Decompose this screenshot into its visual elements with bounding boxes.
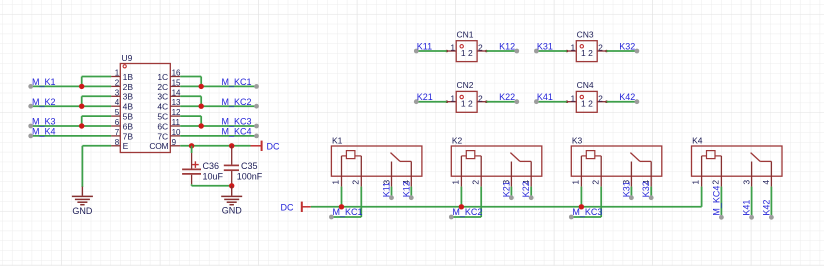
svg-text:K4: K4 [692, 136, 703, 146]
wire net K11 contact [391, 187, 393, 198]
svg-text:K41: K41 [742, 200, 752, 216]
port dot M_KC4 at K4 [719, 215, 724, 220]
wire net M_KC1 [180, 77, 256, 87]
ground GND left [72, 187, 93, 216]
svg-text:10uF: 10uF [203, 171, 224, 181]
svg-text:2C: 2C [157, 82, 168, 92]
svg-text:M_K1: M_K1 [32, 77, 56, 87]
junction C36 top [189, 143, 194, 148]
connector CN4 [566, 91, 608, 112]
svg-text:2: 2 [711, 180, 721, 185]
capacitor C35 [224, 146, 239, 186]
svg-text:K21: K21 [417, 92, 433, 102]
svg-text:C36: C36 [203, 161, 220, 171]
svg-text:14: 14 [172, 88, 181, 97]
junction on net M_K3 [79, 123, 84, 128]
wire net K21 contact [510, 187, 512, 198]
svg-text:2B: 2B [123, 82, 134, 92]
svg-text:K1: K1 [332, 136, 343, 146]
junction DC at K3 [579, 204, 584, 209]
wire COM to DC [180, 145, 250, 147]
svg-text:CN2: CN2 [457, 80, 474, 90]
port dot M_K4 [28, 134, 33, 139]
port dot K22 [529, 195, 534, 200]
svg-text:GND: GND [72, 206, 93, 216]
wire net M_KC3 at K3 [571, 187, 601, 217]
svg-text:K21: K21 [501, 181, 511, 197]
port dot K11 [389, 195, 394, 200]
svg-text:11: 11 [172, 118, 181, 127]
wire net K42 [607, 101, 637, 103]
svg-text:K3: K3 [572, 136, 583, 146]
port dot M_KC3 at K3 [569, 215, 574, 220]
port dot K12 [409, 195, 414, 200]
svg-text:M_KC3: M_KC3 [572, 207, 602, 217]
relay K2 body [451, 146, 542, 187]
junction on net M_KC3 [199, 123, 204, 128]
svg-text:3: 3 [741, 180, 751, 185]
svg-text:2: 2 [590, 180, 600, 185]
wire net K12 contact [410, 187, 412, 198]
svg-text:15: 15 [172, 78, 181, 87]
port dot M_KC2 at K2 [449, 215, 454, 220]
wire K1 coil pin1 to DC [341, 187, 343, 207]
svg-text:1: 1 [450, 93, 455, 103]
connector CN2 [446, 91, 488, 112]
relay K4 body [692, 146, 783, 187]
svg-text:K11: K11 [382, 182, 392, 197]
svg-text:4B: 4B [123, 102, 134, 112]
svg-text:K42: K42 [619, 92, 635, 102]
svg-text:2: 2 [588, 99, 593, 109]
svg-text:7C: 7C [157, 131, 168, 141]
svg-text:4: 4 [761, 180, 771, 185]
wire E pin to GND [82, 146, 111, 187]
wire net M_KC4 [180, 135, 256, 137]
svg-text:5C: 5C [157, 112, 168, 122]
svg-text:DC: DC [281, 203, 294, 213]
ground GND right [221, 186, 242, 216]
net flag DC bottom [281, 202, 311, 213]
svg-text:1: 1 [331, 180, 341, 185]
svg-text:1: 1 [450, 43, 455, 53]
wire K3 coil pin1 to DC [580, 187, 582, 207]
wire DC rail [311, 206, 702, 208]
capacitor C36 [182, 146, 201, 186]
svg-text:M_K3: M_K3 [32, 117, 56, 127]
svg-text:6: 6 [115, 118, 120, 127]
svg-text:1: 1 [570, 93, 575, 103]
svg-text:16: 16 [172, 69, 181, 78]
wire net M_K2 [31, 96, 111, 106]
svg-text:2: 2 [478, 43, 483, 53]
svg-text:1: 1 [115, 69, 120, 78]
svg-text:K31: K31 [537, 42, 553, 52]
svg-text:1: 1 [581, 48, 586, 58]
port dot K12 [514, 49, 519, 54]
wire net K41 contact [751, 187, 753, 218]
svg-text:U9: U9 [122, 53, 133, 63]
svg-text:M_KC2: M_KC2 [452, 207, 482, 217]
wire net M_K4 [31, 135, 111, 137]
svg-text:M_KC4: M_KC4 [222, 127, 252, 137]
svg-text:1: 1 [461, 48, 466, 58]
port dot K32 [649, 195, 654, 200]
relay K1 body [331, 146, 422, 187]
port dot M_KC3 [254, 124, 259, 129]
junction on net M_K2 [79, 104, 84, 109]
junction C35 top [229, 143, 234, 148]
junction DC at K2 [459, 204, 464, 209]
svg-text:M_KC4: M_KC4 [711, 186, 721, 216]
svg-text:K11: K11 [417, 42, 432, 52]
junction DC at K1 [339, 204, 344, 209]
wire net K32 [607, 50, 637, 52]
wire net K21 [416, 101, 447, 103]
wire net K11 [416, 50, 447, 52]
svg-text:2: 2 [478, 93, 483, 103]
port dot K42 [769, 215, 774, 220]
svg-text:K41: K41 [537, 92, 553, 102]
svg-text:2: 2 [468, 48, 473, 58]
svg-text:2: 2 [598, 93, 603, 103]
wire net M_KC4 at K4 [720, 187, 722, 218]
port dot K21 [509, 195, 514, 200]
svg-text:K12: K12 [499, 42, 515, 52]
net flag DC top [251, 141, 280, 152]
svg-text:K32: K32 [641, 181, 651, 197]
svg-text:M_K2: M_K2 [32, 97, 56, 107]
svg-text:6B: 6B [123, 121, 134, 131]
wire net M_K1 [31, 77, 111, 87]
svg-text:GND: GND [222, 206, 243, 216]
svg-text:1: 1 [450, 180, 460, 185]
port dot K42 [635, 99, 640, 104]
svg-text:4: 4 [115, 98, 120, 107]
wire K2 coil pin1 to DC [460, 187, 462, 207]
svg-text:2: 2 [588, 48, 593, 58]
wire net M_KC1 at K1 [331, 187, 361, 217]
svg-text:CN3: CN3 [577, 29, 594, 39]
svg-text:1B: 1B [123, 72, 134, 82]
svg-text:3C: 3C [157, 92, 168, 102]
svg-text:7: 7 [115, 128, 120, 137]
svg-text:3: 3 [115, 88, 120, 97]
port dot M_K3 [28, 124, 33, 129]
wire caps bottom [192, 185, 232, 187]
svg-text:2: 2 [115, 78, 120, 87]
svg-text:3B: 3B [123, 92, 134, 102]
wire K4 coil pin1 to DC corner [701, 187, 703, 207]
svg-text:M_K4: M_K4 [32, 127, 56, 137]
IC U9 body [111, 64, 181, 153]
svg-text:4C: 4C [157, 102, 168, 112]
svg-text:2: 2 [468, 99, 473, 109]
svg-text:K32: K32 [619, 42, 635, 52]
svg-text:1C: 1C [157, 72, 168, 82]
svg-text:2: 2 [470, 180, 480, 185]
svg-text:E: E [123, 141, 129, 151]
svg-text:K42: K42 [761, 200, 771, 216]
svg-text:9: 9 [172, 138, 177, 147]
junction on net M_K1 [79, 84, 84, 89]
port dot K22 [514, 99, 519, 104]
svg-text:K12: K12 [401, 181, 411, 197]
svg-text:12: 12 [172, 108, 181, 117]
svg-text:K22: K22 [521, 181, 531, 197]
port dot K31 [534, 49, 539, 54]
port dot M_KC2 [254, 104, 259, 109]
junction on net M_KC1 [199, 84, 204, 89]
port dot K32 [635, 49, 640, 54]
svg-text:100nF: 100nF [237, 171, 263, 181]
svg-text:K2: K2 [452, 136, 463, 146]
wire net K32 contact [650, 187, 652, 198]
connector CN1 [446, 41, 488, 62]
port dot K11 [414, 49, 419, 54]
wire net M_KC2 at K2 [451, 187, 481, 217]
svg-text:5: 5 [115, 108, 120, 117]
wire net K22 contact [530, 187, 532, 198]
svg-text:2: 2 [598, 43, 603, 53]
wire net K42 contact [770, 187, 772, 218]
wire net M_K3 [31, 116, 111, 126]
svg-text:1: 1 [570, 43, 575, 53]
port dot M_K1 [28, 84, 33, 89]
svg-text:2: 2 [351, 180, 361, 185]
svg-text:M_KC2: M_KC2 [222, 97, 252, 107]
wire net K22 [486, 101, 516, 103]
port dot M_KC1 [254, 84, 259, 89]
svg-text:K31: K31 [621, 181, 631, 197]
svg-text:8: 8 [115, 138, 120, 147]
svg-text:C35: C35 [241, 161, 258, 171]
svg-text:DC: DC [267, 141, 280, 151]
port dot M_K2 [28, 104, 33, 109]
svg-text:1: 1 [570, 180, 580, 185]
svg-text:CN4: CN4 [577, 80, 594, 90]
junction on net M_KC2 [199, 104, 204, 109]
svg-text:K22: K22 [499, 92, 515, 102]
svg-text:COM: COM [149, 141, 168, 151]
svg-text:13: 13 [172, 98, 181, 107]
wire net K41 [536, 101, 567, 103]
svg-text:10: 10 [172, 128, 181, 137]
svg-text:1: 1 [461, 99, 466, 109]
svg-text:M_KC3: M_KC3 [222, 117, 252, 127]
connector CN3 [566, 41, 608, 62]
wire net K31 [536, 50, 567, 52]
svg-text:7B: 7B [123, 131, 134, 141]
svg-text:5B: 5B [123, 112, 134, 122]
svg-text:1: 1 [581, 99, 586, 109]
svg-text:6C: 6C [157, 121, 168, 131]
svg-text:CN1: CN1 [457, 29, 474, 39]
relay K3 body [571, 146, 662, 187]
wire net K31 contact [630, 187, 632, 198]
port dot K41 [749, 215, 754, 220]
junction caps bottom [229, 183, 234, 188]
port dot K41 [534, 99, 539, 104]
wire net K12 [486, 50, 516, 52]
wire net M_KC2 [180, 96, 256, 106]
svg-text:M_KC1: M_KC1 [333, 207, 363, 217]
svg-text:1: 1 [691, 180, 701, 185]
svg-text:M_KC1: M_KC1 [222, 77, 252, 87]
port dot M_KC1 at K1 [329, 215, 334, 220]
wire net M_KC3 [180, 116, 256, 126]
port dot K21 [414, 99, 419, 104]
port dot K31 [629, 195, 634, 200]
port dot M_KC4 [254, 134, 259, 139]
